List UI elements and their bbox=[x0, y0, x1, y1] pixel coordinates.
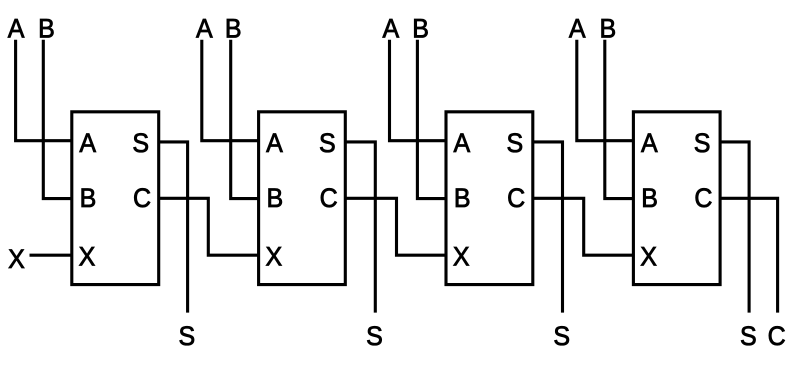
svg-text:X: X bbox=[265, 240, 282, 271]
svg-text:B: B bbox=[266, 182, 283, 213]
svg-text:S: S bbox=[366, 320, 383, 351]
svg-text:B: B bbox=[225, 13, 242, 44]
svg-text:B: B bbox=[412, 13, 429, 44]
svg-text:S: S bbox=[132, 127, 149, 158]
svg-text:B: B bbox=[454, 182, 471, 213]
svg-text:A: A bbox=[196, 13, 213, 44]
svg-text:A: A bbox=[641, 127, 658, 158]
svg-text:C: C bbox=[768, 320, 786, 351]
svg-text:B: B bbox=[641, 182, 658, 213]
svg-text:S: S bbox=[740, 320, 757, 351]
svg-text:X: X bbox=[453, 240, 470, 271]
svg-text:A: A bbox=[454, 127, 471, 158]
svg-text:C: C bbox=[133, 182, 151, 213]
svg-text:A: A bbox=[8, 13, 25, 44]
svg-text:X: X bbox=[640, 240, 657, 271]
svg-text:S: S bbox=[694, 127, 711, 158]
svg-text:B: B bbox=[38, 13, 55, 44]
svg-text:X: X bbox=[8, 243, 25, 274]
svg-text:S: S bbox=[553, 320, 570, 351]
svg-text:C: C bbox=[507, 182, 525, 213]
svg-text:S: S bbox=[506, 127, 523, 158]
svg-text:C: C bbox=[694, 182, 712, 213]
svg-text:S: S bbox=[178, 320, 195, 351]
svg-text:A: A bbox=[569, 13, 586, 44]
svg-text:B: B bbox=[599, 13, 616, 44]
svg-text:S: S bbox=[319, 127, 336, 158]
svg-text:C: C bbox=[320, 182, 338, 213]
svg-text:X: X bbox=[79, 240, 96, 271]
svg-text:B: B bbox=[80, 182, 97, 213]
svg-text:A: A bbox=[266, 127, 283, 158]
svg-text:A: A bbox=[79, 127, 96, 158]
svg-text:A: A bbox=[382, 13, 399, 44]
